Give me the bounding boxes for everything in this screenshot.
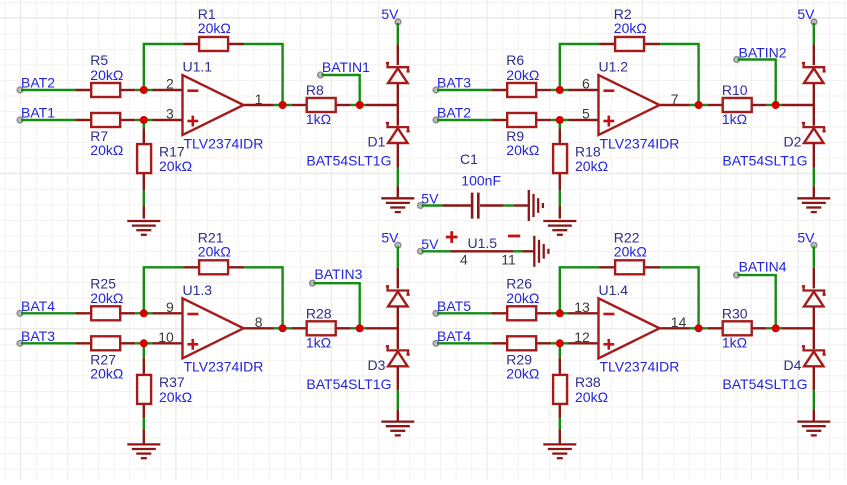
- resistor R27 20kΩ: [75, 336, 135, 381]
- svg-text:TLV2374IDR: TLV2374IDR: [184, 135, 264, 151]
- wire output to R28: [274, 327, 292, 329]
- svg-text:TLV2374IDR: TLV2374IDR: [600, 135, 680, 151]
- svg-text:1kΩ: 1kΩ: [722, 111, 747, 127]
- svg-text:U1.3: U1.3: [183, 282, 213, 298]
- ground: [127, 221, 160, 235]
- svg-text:BATIN4: BATIN4: [739, 258, 787, 274]
- wire output node to diode column: [767, 104, 814, 106]
- net label BAT3: [17, 328, 55, 346]
- pin number 13: [574, 299, 590, 315]
- junction BATIN3 node: [356, 324, 364, 332]
- svg-text:BATIN2: BATIN2: [739, 45, 787, 61]
- junction inverting node: [140, 309, 148, 317]
- pin number 12: [574, 329, 590, 345]
- svg-text:8: 8: [255, 314, 263, 330]
- junction output node: [279, 101, 287, 109]
- svg-text:D3: D3: [368, 357, 386, 373]
- resistor R37 20kΩ: [137, 374, 192, 405]
- diode D1 upper BAT54SLT1G to 5V: [386, 63, 410, 126]
- svg-text:BAT3: BAT3: [21, 328, 55, 344]
- junction non-inverting node: [140, 339, 148, 347]
- svg-text:C1: C1: [460, 151, 478, 167]
- wire BATIN3 to output node: [314, 282, 360, 328]
- wire 5V to C1: [422, 204, 472, 206]
- svg-text:7: 7: [671, 91, 679, 107]
- pin number 14: [671, 314, 687, 330]
- capacitor C1 100nF: [460, 151, 501, 218]
- net label BAT5: [433, 298, 471, 316]
- junction inverting node: [556, 86, 564, 94]
- wire feedback net right: [660, 43, 699, 105]
- svg-text:BAT2: BAT2: [21, 75, 55, 91]
- wire feedback net right: [244, 43, 283, 105]
- pin number 8: [255, 314, 263, 330]
- net label BAT1: [17, 105, 55, 123]
- svg-text:20kΩ: 20kΩ: [506, 290, 539, 306]
- svg-text:R38: R38: [575, 374, 601, 390]
- pin number 11: [501, 251, 516, 267]
- wire BAT3 node to R37: [143, 343, 145, 374]
- svg-text:100nF: 100nF: [461, 173, 501, 189]
- diode D3 lower BAT54SLT1G to ground: [306, 346, 409, 392]
- svg-text:20kΩ: 20kΩ: [159, 389, 192, 405]
- ground: [543, 444, 576, 458]
- pin number 7: [671, 91, 679, 107]
- junction output node: [279, 324, 287, 332]
- wire BAT1 to R7: [21, 119, 75, 121]
- svg-text:R26: R26: [506, 275, 532, 291]
- svg-text:1kΩ: 1kΩ: [306, 111, 331, 127]
- diode D2 lower BAT54SLT1G to ground: [722, 123, 825, 169]
- wire feedback net left: [143, 267, 183, 313]
- svg-text:12: 12: [574, 329, 590, 345]
- svg-text:R17: R17: [159, 143, 185, 159]
- wire BATIN1 to output node: [322, 74, 360, 105]
- svg-text:TLV2374IDR: TLV2374IDR: [600, 359, 680, 375]
- svg-text:TLV2374IDR: TLV2374IDR: [184, 359, 264, 375]
- pin number 3: [166, 106, 174, 122]
- ground: [543, 221, 576, 235]
- wire R18 to ground: [559, 174, 561, 219]
- net label BAT2: [17, 75, 55, 93]
- svg-text:U1.4: U1.4: [599, 282, 629, 298]
- wire non-inverting input node: [135, 119, 152, 121]
- resistor R6 20kΩ: [491, 52, 551, 97]
- wire feedback net left: [143, 44, 183, 90]
- 5V supply for C1: [418, 190, 439, 208]
- resistor R17 20kΩ: [137, 143, 192, 174]
- junction output node: [695, 101, 703, 109]
- svg-text:D1: D1: [368, 134, 386, 150]
- svg-text:BAT54SLT1G: BAT54SLT1G: [722, 153, 807, 169]
- svg-text:R18: R18: [575, 143, 601, 159]
- svg-text:20kΩ: 20kΩ: [506, 365, 539, 381]
- ground: [381, 422, 414, 436]
- ground: [381, 198, 414, 212]
- svg-text:20kΩ: 20kΩ: [614, 20, 647, 36]
- svg-text:20kΩ: 20kΩ: [506, 67, 539, 83]
- svg-text:R25: R25: [90, 275, 116, 291]
- junction output node: [695, 324, 703, 332]
- svg-text:U1.5: U1.5: [468, 235, 498, 251]
- junction non-inverting node: [556, 339, 564, 347]
- svg-text:5V: 5V: [421, 236, 439, 252]
- wire C1 to ground: [480, 204, 529, 206]
- svg-text:BAT4: BAT4: [437, 328, 471, 344]
- wire 5V to diode: [813, 246, 815, 288]
- junction BATIN4 node: [772, 324, 780, 332]
- wire inverting input node: [551, 89, 568, 91]
- pin number 5: [582, 106, 590, 122]
- svg-text:BAT54SLT1G: BAT54SLT1G: [722, 376, 807, 392]
- wire BAT4 node to R38: [559, 343, 561, 374]
- diode D4 lower BAT54SLT1G to ground: [722, 346, 825, 392]
- resistor R22 20kΩ feedback: [599, 230, 660, 275]
- svg-text:BAT1: BAT1: [21, 105, 55, 121]
- resistor R21 20kΩ feedback: [183, 230, 244, 275]
- wire inverting input node: [135, 89, 152, 91]
- op-amp U1.2 TLV2374IDR: [569, 59, 690, 152]
- junction non-inverting node: [140, 116, 148, 124]
- pin number 2: [166, 76, 174, 92]
- ground rotated for C1: [529, 190, 543, 221]
- svg-text:10: 10: [158, 329, 174, 345]
- net label BATIN1: [318, 59, 370, 78]
- svg-text:20kΩ: 20kΩ: [198, 20, 231, 36]
- resistor R30 1kΩ: [708, 306, 767, 351]
- wire R38 to ground: [559, 405, 561, 444]
- svg-text:9: 9: [166, 299, 174, 315]
- resistor R8 1kΩ: [292, 82, 351, 127]
- resistor R18 20kΩ: [553, 143, 608, 174]
- svg-text:11: 11: [501, 251, 516, 267]
- ground: [797, 198, 830, 212]
- net label BATIN3: [310, 266, 363, 286]
- svg-text:R28: R28: [306, 306, 332, 322]
- 5V supply for U1.5: [418, 236, 439, 254]
- 5V supply: [381, 229, 401, 248]
- wire diode to ground: [813, 167, 815, 197]
- svg-text:6: 6: [582, 76, 590, 92]
- op-amp power U1.5 pins 4 and 11: [422, 231, 521, 251]
- wire diode to ground: [397, 390, 399, 420]
- svg-text:BAT5: BAT5: [437, 298, 471, 314]
- wire BAT2 node to R18: [559, 120, 561, 144]
- svg-text:D4: D4: [784, 357, 802, 373]
- svg-text:BAT54SLT1G: BAT54SLT1G: [306, 376, 391, 392]
- svg-text:20kΩ: 20kΩ: [506, 142, 539, 158]
- wire output node to diode column: [351, 327, 398, 329]
- net label BAT2: [433, 105, 471, 123]
- resistor R38 20kΩ: [553, 374, 608, 405]
- svg-text:D2: D2: [784, 134, 802, 150]
- svg-text:20kΩ: 20kΩ: [198, 243, 231, 259]
- junction BATIN2 node: [772, 101, 780, 109]
- svg-text:BAT2: BAT2: [437, 105, 471, 121]
- svg-text:R37: R37: [159, 374, 185, 390]
- pin number 6: [582, 76, 590, 92]
- op-amp U1.1 TLV2374IDR: [153, 59, 274, 152]
- 5V supply: [797, 229, 816, 248]
- wire inverting input node: [135, 312, 152, 314]
- junction BATIN1 node: [356, 101, 364, 109]
- svg-text:20kΩ: 20kΩ: [90, 142, 123, 158]
- wire BAT2 to R9: [437, 119, 491, 121]
- svg-text:4: 4: [460, 251, 468, 267]
- svg-text:20kΩ: 20kΩ: [614, 243, 647, 259]
- ground: [127, 444, 160, 458]
- svg-text:5: 5: [582, 106, 590, 122]
- svg-text:20kΩ: 20kΩ: [159, 158, 192, 174]
- svg-text:R5: R5: [90, 52, 108, 68]
- resistor R26 20kΩ: [491, 275, 551, 320]
- wire R17 to ground: [143, 174, 145, 219]
- svg-text:20kΩ: 20kΩ: [90, 67, 123, 83]
- resistor R1 20kΩ feedback: [183, 6, 244, 51]
- wire 5V to diode: [813, 23, 815, 65]
- ground: [797, 422, 830, 436]
- svg-text:1kΩ: 1kΩ: [306, 335, 331, 351]
- wire BAT2 to R5: [21, 89, 75, 91]
- wire BAT5 to R26: [437, 312, 491, 314]
- svg-text:20kΩ: 20kΩ: [90, 365, 123, 381]
- svg-text:5V: 5V: [421, 190, 439, 206]
- wire BAT3 to R27: [21, 342, 75, 344]
- 5V supply: [381, 6, 401, 25]
- resistor R10 1kΩ: [708, 82, 767, 127]
- wire BATIN4 to output node: [738, 274, 776, 328]
- wire 5V to diode: [397, 23, 399, 65]
- wire output to R10: [690, 104, 708, 106]
- ground rotated for U1.5: [534, 236, 548, 267]
- svg-text:20kΩ: 20kΩ: [575, 389, 608, 405]
- svg-text:R30: R30: [722, 306, 748, 322]
- diode D1 lower BAT54SLT1G to ground: [306, 123, 409, 169]
- wire pin 11 to ground: [514, 250, 534, 252]
- net label BAT3: [433, 75, 471, 93]
- svg-text:14: 14: [671, 314, 687, 330]
- svg-text:BAT4: BAT4: [21, 298, 55, 314]
- diode D2 upper BAT54SLT1G to 5V: [802, 63, 826, 126]
- junction non-inverting node: [556, 116, 564, 124]
- wire feedback net left: [559, 44, 599, 90]
- svg-text:20kΩ: 20kΩ: [575, 158, 608, 174]
- svg-text:1: 1: [255, 91, 263, 107]
- wire non-inverting input node: [135, 342, 152, 344]
- svg-text:BATIN1: BATIN1: [322, 59, 370, 75]
- wire R37 to ground: [143, 405, 145, 444]
- svg-text:2: 2: [166, 76, 174, 92]
- wire feedback net right: [660, 266, 699, 328]
- wire BAT1 node to R17: [143, 120, 145, 144]
- wire output node to diode column: [767, 327, 814, 329]
- pin number 1: [255, 91, 263, 107]
- wire output to R30: [690, 327, 708, 329]
- resistor R28 1kΩ: [292, 306, 351, 351]
- resistor R2 20kΩ feedback: [599, 6, 660, 51]
- svg-text:R10: R10: [722, 82, 748, 98]
- junction inverting node: [140, 86, 148, 94]
- op-amp U1.4 TLV2374IDR: [569, 282, 690, 375]
- net label BAT4: [17, 298, 55, 316]
- resistor R7 20kΩ: [75, 113, 135, 158]
- wire BAT3 to R6: [437, 89, 491, 91]
- svg-text:BAT54SLT1G: BAT54SLT1G: [306, 153, 391, 169]
- wire output to R8: [274, 104, 292, 106]
- svg-text:20kΩ: 20kΩ: [90, 290, 123, 306]
- wire non-inverting input node: [551, 119, 568, 121]
- wire diode to ground: [813, 390, 815, 420]
- svg-text:13: 13: [574, 299, 590, 315]
- pin number 4: [460, 251, 468, 267]
- wire feedback net left: [559, 267, 599, 313]
- net label BATIN2: [734, 45, 787, 63]
- diode D4 upper BAT54SLT1G to 5V: [802, 286, 826, 349]
- wire BAT4 to R29: [437, 342, 491, 344]
- resistor R25 20kΩ: [75, 275, 135, 320]
- diode D3 upper BAT54SLT1G to 5V: [386, 286, 410, 349]
- pin number 9: [166, 299, 174, 315]
- svg-text:R6: R6: [506, 52, 524, 68]
- svg-text:U1.2: U1.2: [599, 59, 629, 75]
- svg-text:1kΩ: 1kΩ: [722, 335, 747, 351]
- wire non-inverting input node: [551, 342, 568, 344]
- net label BAT4: [433, 328, 471, 346]
- svg-text:BAT3: BAT3: [437, 75, 471, 91]
- svg-text:R8: R8: [306, 82, 324, 98]
- resistor R5 20kΩ: [75, 52, 135, 97]
- wire 5V to diode: [397, 246, 399, 288]
- net label BATIN4: [734, 258, 787, 278]
- svg-text:3: 3: [166, 106, 174, 122]
- resistor R29 20kΩ: [491, 336, 551, 381]
- junction inverting node: [556, 309, 564, 317]
- svg-text:BATIN3: BATIN3: [314, 266, 362, 282]
- wire feedback net right: [244, 266, 283, 328]
- wire output node to diode column: [351, 104, 398, 106]
- wire BAT4 to R25: [21, 312, 75, 314]
- wire diode to ground: [397, 167, 399, 197]
- resistor R9 20kΩ: [491, 113, 551, 158]
- svg-text:U1.1: U1.1: [183, 59, 213, 75]
- pin number 10: [158, 329, 174, 345]
- wire inverting input node: [551, 312, 568, 314]
- op-amp U1.3 TLV2374IDR: [153, 282, 274, 375]
- wire BATIN2 to output node: [738, 58, 776, 105]
- 5V supply: [797, 6, 816, 25]
